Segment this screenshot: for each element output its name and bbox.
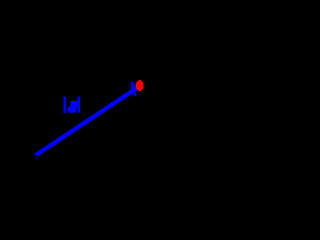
- label |a| : letter a bowl: [67, 106, 76, 113]
- label |a| : letter a top block: [70, 101, 78, 107]
- label |a| : right bar: [77, 97, 80, 113]
- arrowhead upper barb: [131, 82, 134, 91]
- label |a| : left bar: [63, 97, 66, 113]
- arrowhead lower barb: [133, 92, 136, 97]
- vector a shaft (wire): [36, 87, 139, 155]
- label |a| : letter a stem: [73, 101, 78, 113]
- point at vector tip (red): [136, 80, 144, 91]
- arrowhead tip fill: [134, 84, 139, 92]
- start dot of vector a: [36, 158, 38, 160]
